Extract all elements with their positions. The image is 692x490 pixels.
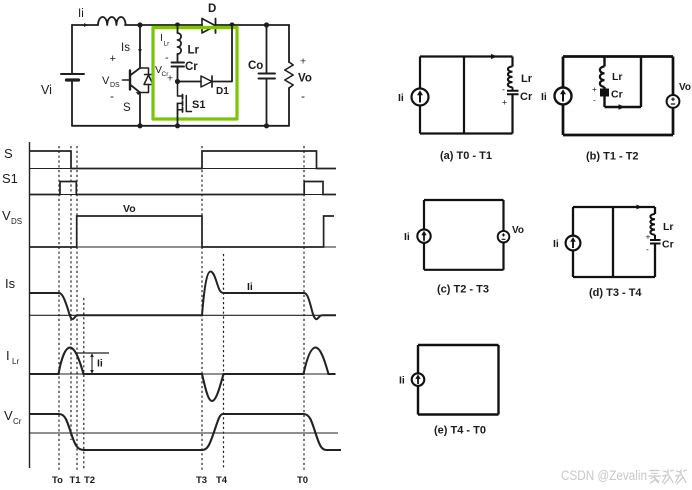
- svg-text:Vo: Vo: [123, 203, 136, 215]
- svg-text:Lr: Lr: [188, 45, 200, 57]
- current source Ii (d): [566, 236, 581, 251]
- svg-text:S: S: [4, 146, 13, 161]
- wire: D1 to top rail: [212, 25, 232, 82]
- current source Ii (c): [417, 229, 430, 242]
- wire: top rail from Li to D anode: [125, 24, 202, 26]
- svg-text:-: -: [502, 85, 505, 95]
- svg-text:(c) T2 - T3: (c) T2 - T3: [437, 284, 489, 296]
- svg-text:(a) T0 - T1: (a) T0 - T1: [440, 150, 492, 162]
- wire: bottom rail: [72, 125, 289, 127]
- svg-text:Co: Co: [248, 60, 263, 72]
- node dot (resonant branch top): [175, 22, 180, 27]
- svg-text:S1: S1: [2, 171, 18, 186]
- wire: resonant branch top stub: [177, 25, 179, 33]
- wire: Co branch: [266, 25, 268, 126]
- svg-text:-: -: [301, 89, 305, 103]
- svg-text:Ii: Ii: [553, 238, 559, 250]
- node T4 dashed line: [223, 254, 225, 470]
- node dot (Li/S junction): [137, 22, 142, 27]
- svg-text:Ii: Ii: [78, 8, 84, 20]
- svg-text:Ii: Ii: [404, 231, 410, 243]
- waveform ILr trace: [30, 348, 336, 402]
- svg-text:+: +: [502, 98, 507, 108]
- node T1 dashed line: [70, 146, 72, 440]
- svg-text:-: -: [165, 52, 169, 64]
- wire loop (b): [563, 57, 673, 136]
- wire loop (c): [424, 200, 504, 270]
- wire ILr baseline: [30, 373, 337, 375]
- svg-text:D1: D1: [216, 86, 229, 97]
- svg-text:V: V: [4, 408, 13, 423]
- svg-text:+: +: [110, 53, 116, 65]
- svg-text:Lr: Lr: [663, 221, 674, 233]
- battery Vi: [61, 73, 84, 75]
- wire VCr zero line: [30, 432, 339, 434]
- waveform Is trace: [30, 272, 337, 320]
- wire VDS baseline: [30, 246, 337, 248]
- inductor Lr (d): [650, 214, 655, 240]
- waveform S trace: [30, 151, 337, 169]
- current arrow top (a): [491, 54, 497, 59]
- node mid (Cr/S1/D1 junction): [175, 79, 180, 84]
- current source Ii (e): [412, 373, 425, 386]
- transistor S1 (MOSFET): [178, 82, 183, 100]
- wire: left rail (Vi branch vertical): [71, 25, 73, 126]
- node T2 dashed line: [76, 146, 78, 470]
- svg-text:T3: T3: [196, 475, 207, 486]
- wire loop (d): [573, 207, 655, 277]
- svg-text:DS: DS: [11, 217, 22, 226]
- svg-text:+: +: [300, 56, 306, 68]
- inductor Lr (a): [508, 67, 513, 91]
- diode (antiparallel on S): [140, 68, 149, 93]
- svg-text:Ii: Ii: [398, 92, 404, 104]
- svg-text:Ii: Ii: [97, 358, 103, 370]
- svg-text:T2: T2: [84, 475, 95, 486]
- wire middle branch (a): [463, 57, 465, 134]
- svg-text:To: To: [52, 475, 63, 486]
- current source Ii (a): [412, 89, 429, 106]
- svg-text:S: S: [123, 102, 131, 114]
- diode D1: [201, 76, 212, 87]
- node T3 dashed line: [201, 146, 203, 470]
- wire: Cr to mid node: [177, 67, 179, 82]
- capacitor Cr (a): [507, 91, 519, 95]
- node dot (D1 return / D cathode): [229, 22, 234, 27]
- current source Ii (b): [555, 88, 572, 105]
- svg-text:T1: T1: [70, 475, 82, 486]
- node dot (Co bottom): [264, 123, 269, 128]
- svg-text:Lr: Lr: [12, 357, 19, 366]
- transistor S (IGBT): [129, 71, 131, 90]
- wire Is baseline: [30, 314, 337, 316]
- node dot (resonant branch bottom): [175, 123, 180, 128]
- svg-text:Cr: Cr: [662, 239, 674, 251]
- axis vertical: [29, 142, 31, 468]
- node T2b dashed line: [83, 298, 85, 470]
- wire: top rail left segment: [72, 24, 98, 26]
- node dot (switch bottom): [137, 123, 142, 128]
- wire: switch branch vertical lower: [139, 93, 141, 126]
- watermark: [561, 468, 687, 484]
- wire: D1 horizontal: [178, 81, 202, 83]
- svg-text:CSDN @Zevalin: CSDN @Zevalin: [561, 468, 647, 483]
- capacitor Cr: [172, 62, 185, 64]
- svg-text:Lr: Lr: [164, 41, 171, 48]
- resistor Vo (load): [285, 62, 293, 88]
- node Ii dimension (ILr row): [76, 352, 109, 354]
- wire S baseline: [30, 168, 337, 170]
- svg-text:(b) T1 - T2: (b) T1 - T2: [586, 151, 639, 163]
- svg-text:-: -: [646, 244, 649, 254]
- svg-text:Cr: Cr: [185, 61, 198, 73]
- wire S1 baseline: [30, 194, 337, 196]
- highlight box (green): [153, 28, 237, 120]
- wire: top rail from D cathode to Vo branch: [216, 24, 290, 26]
- waveform VDS trace: [30, 216, 335, 247]
- capacitor Cr (b) (filled): [600, 89, 609, 97]
- wire middle branch (d): [612, 207, 614, 277]
- wire inner branch (b): [605, 57, 642, 108]
- svg-text:S1: S1: [192, 99, 205, 111]
- waveform row labels: [2, 146, 308, 486]
- voltage source Vo (b): [667, 95, 680, 108]
- svg-text:T4: T4: [216, 475, 228, 486]
- node T0b dashed line: [303, 146, 305, 470]
- inductor Lr: [178, 33, 182, 54]
- inductor Li: [98, 17, 126, 25]
- svg-text:D: D: [208, 3, 216, 15]
- svg-text:Ii: Ii: [399, 375, 405, 387]
- svg-text:Vo: Vo: [298, 73, 312, 85]
- svg-text:+: +: [592, 84, 597, 94]
- svg-text:(d) T3 - T4: (d) T3 - T4: [589, 287, 642, 299]
- svg-text:-: -: [593, 95, 596, 105]
- wire: switch branch vertical upper: [139, 25, 141, 68]
- svg-text:DS: DS: [110, 82, 120, 89]
- node dot (Co top): [264, 22, 269, 27]
- capacitor Cr (d): [650, 240, 661, 244]
- svg-text:Ii: Ii: [541, 91, 547, 103]
- svg-text:Is: Is: [5, 276, 16, 291]
- waveform S1 trace: [30, 182, 337, 195]
- svg-text:Vo: Vo: [512, 225, 524, 236]
- svg-text:-: -: [110, 89, 114, 103]
- svg-text:+: +: [646, 232, 651, 242]
- svg-text:T0: T0: [297, 475, 308, 486]
- svg-text:Ii: Ii: [247, 281, 253, 293]
- capacitor Co: [259, 73, 276, 75]
- current arrow top (d): [637, 205, 643, 210]
- svg-text:V: V: [2, 208, 11, 223]
- svg-text:Lr: Lr: [612, 71, 623, 83]
- svg-text:Cr: Cr: [611, 89, 623, 101]
- wire: Vo branch verticals: [288, 25, 290, 126]
- svg-text:I: I: [160, 32, 163, 44]
- wire: S1 to bottom rail: [177, 103, 179, 125]
- svg-text:+: +: [167, 73, 173, 85]
- wire: Lr to Cr: [177, 54, 179, 63]
- wire loop (a): [420, 57, 513, 134]
- svg-text:Vo: Vo: [679, 82, 691, 93]
- svg-text:Cr: Cr: [520, 91, 533, 103]
- svg-text:I: I: [6, 348, 10, 363]
- svg-text:(e) T4 - T0: (e) T4 - T0: [434, 425, 486, 437]
- svg-text:Is: Is: [121, 42, 130, 54]
- inductor Lr (b): [600, 67, 605, 87]
- voltage source Vo (c): [498, 231, 510, 243]
- svg-text:Vi: Vi: [41, 83, 52, 97]
- svg-text:Cr: Cr: [13, 417, 22, 426]
- current arrow inner (b): [619, 104, 626, 110]
- diode D: [202, 19, 216, 34]
- waveform VCr trace: [30, 414, 342, 450]
- svg-text:V: V: [102, 75, 110, 87]
- node T0 dashed line: [58, 146, 60, 470]
- wire loop (e): [418, 345, 499, 415]
- svg-text:Lr: Lr: [521, 73, 533, 85]
